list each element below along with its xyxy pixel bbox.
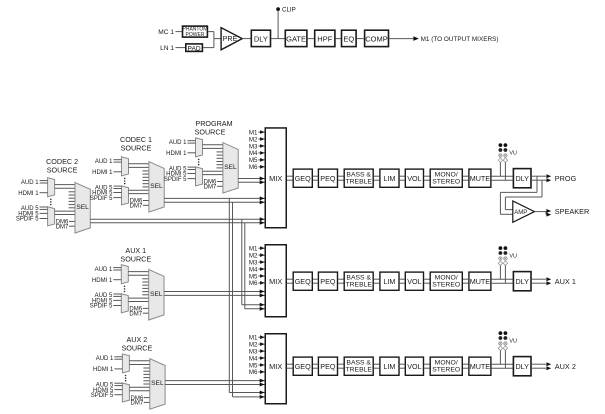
svg-text:AUD 1: AUD 1	[95, 267, 113, 273]
wire stub inputs codec 2-4 (AUX 1)	[142, 279, 148, 295]
wire pair LIM to VOL (PROG)	[400, 176, 405, 180]
svg-text:BASS &: BASS &	[346, 274, 371, 281]
wire pair CODEC 1 SEL to PROG mixer	[164, 196, 264, 204]
block PEQ (PROG)	[318, 169, 337, 187]
svg-text:LIM: LIM	[383, 362, 395, 371]
wire DM7 (AUX 2)	[144, 401, 150, 403]
wire pair BASS & TREBLE to LIM (AUX 2)	[374, 364, 379, 368]
wire AUD 1 pair (PROGRAM)	[188, 141, 196, 143]
wire mux B to SEL pair (AUX 1)	[128, 298, 148, 301]
svg-text:PROG: PROG	[555, 174, 577, 183]
svg-text:STEREO: STEREO	[432, 282, 460, 289]
svg-text:VU: VU	[509, 338, 517, 344]
wire EQ to COMP	[357, 38, 364, 40]
wire branch CODEC 2 pair down to AUX 1 mixer	[242, 219, 265, 311]
svg-text:MIX: MIX	[269, 277, 282, 286]
selector input mux B (AUX 1)	[121, 294, 128, 313]
label HDMI 1 (PROGRAM)	[166, 151, 187, 157]
label HDMI 1 (AUX 1)	[92, 278, 113, 284]
wire mux A to SEL pair (CODEC 1)	[129, 164, 149, 168]
wire pair LIM to VOL (AUX 2)	[400, 364, 405, 368]
wire mux A to SEL pair (CODEC 2)	[55, 185, 75, 189]
label DM6 (AUX 2)	[131, 396, 144, 402]
wire AUD 5 pair (CODEC 1)	[114, 186, 122, 188]
wire pair MONO/STEREO to MUTE (AUX 2)	[463, 364, 468, 368]
selector group CODEC 2	[16, 157, 90, 233]
wire HDMI 1 (CODEC 1)	[114, 171, 122, 173]
wire pair VOL to MONO/STEREO (AUX 2)	[424, 364, 429, 368]
wire DLY to GATE	[271, 38, 284, 40]
wire stub inputs codec 2-4 (CODEC 2)	[69, 192, 75, 208]
indicator VU meter	[498, 331, 517, 350]
block BASS & TREBLE (AUX 2)	[344, 357, 373, 375]
wire stub inputs codec 2-4 (CODEC 1)	[143, 171, 149, 187]
wire HDMI 1 (AUX 1)	[113, 279, 121, 281]
block PEQ (AUX 2)	[318, 357, 337, 375]
mixer MIX (AUX 1)	[265, 245, 286, 317]
wire pair CODEC 2 SEL to PROG mixer	[90, 217, 264, 225]
wire pair GEQ to PEQ (AUX 1)	[313, 279, 318, 283]
svg-text:PRE: PRE	[223, 34, 238, 43]
wire VU meter taps	[500, 163, 505, 181]
wire SPDIF 5 (AUX 2)	[114, 394, 122, 396]
wire pair MIX to GEQ (AUX 1)	[287, 279, 293, 283]
svg-text:PEQ: PEQ	[320, 174, 336, 183]
block PHANTOM POWER	[183, 26, 208, 38]
svg-text:MONO/: MONO/	[435, 274, 458, 281]
wire DM7 (AUX 1)	[143, 312, 149, 314]
svg-text:MONO/: MONO/	[435, 359, 458, 366]
label CODEC 2 SOURCE title	[46, 157, 78, 174]
svg-text:PAD: PAD	[188, 45, 201, 52]
wire phantom power and pad to preamp	[203, 32, 221, 48]
wire AUD 5 pair (PROGRAM)	[188, 167, 196, 169]
svg-text:AUD 1: AUD 1	[96, 356, 114, 362]
selector SEL (AUX 2)	[150, 359, 165, 410]
wire pair AUX 1 SEL to AUX 1 mixer	[164, 290, 265, 298]
selector input mux A (PROGRAM)	[196, 138, 203, 157]
mixer MIX (AUX 2)	[265, 334, 286, 404]
selector SEL (AUX 1)	[149, 270, 164, 321]
wire DM6 (AUX 2)	[144, 397, 150, 399]
svg-text:HDMI 1: HDMI 1	[92, 170, 113, 176]
svg-text:COMP: COMP	[365, 34, 388, 43]
block DLY (AUX 1)	[513, 272, 531, 291]
amplifier AMP	[513, 201, 535, 222]
wire SPDIF 5 (PROGRAM)	[188, 178, 196, 180]
wire CLIP to input wire	[277, 11, 279, 39]
svg-text:SPDIF 5: SPDIF 5	[16, 217, 39, 223]
label DM6 (CODEC 2)	[56, 220, 69, 226]
svg-text:DM7: DM7	[129, 311, 142, 317]
block VOL (PROG)	[405, 169, 423, 187]
svg-text:MUTE: MUTE	[470, 277, 491, 286]
wire COMP to M1 output	[389, 36, 419, 41]
label DM6 (CODEC 1)	[130, 199, 143, 205]
svg-text:GEQ: GEQ	[295, 362, 311, 371]
svg-text:M4: M4	[249, 266, 258, 273]
indicator VU meter	[498, 246, 517, 265]
wire HDMI 5 (AUX 1)	[113, 299, 121, 301]
svg-text:HDMI 1: HDMI 1	[93, 367, 114, 373]
svg-text:HDMI 1: HDMI 1	[92, 278, 113, 284]
label DM7 (PROGRAM)	[204, 185, 217, 191]
label AUD 5 (AUX 2)	[96, 382, 114, 388]
svg-text:M6: M6	[249, 164, 258, 171]
wire pair VOL to MONO/STEREO (AUX 1)	[424, 279, 429, 283]
block GEQ (AUX 1)	[293, 272, 312, 290]
mixer chain PROG	[249, 128, 577, 228]
svg-text:AUX 1: AUX 1	[555, 277, 576, 286]
block DLY (AUX 2)	[513, 357, 531, 376]
svg-text:AUD 1: AUD 1	[95, 159, 113, 165]
svg-text:DM7: DM7	[131, 401, 144, 407]
node M1 (TO OUTPUT MIXERS) label	[421, 36, 499, 43]
block GATE	[285, 30, 307, 46]
wire HDMI 5 (CODEC 2)	[40, 212, 48, 214]
block DLY (PROG)	[513, 169, 531, 188]
selector SEL (CODEC 2)	[75, 183, 90, 234]
wire stub inputs codec 2-4 (AUX 2)	[143, 368, 149, 384]
svg-text:EQ: EQ	[343, 34, 354, 43]
svg-text:MIX: MIX	[269, 362, 282, 371]
block VOL (AUX 1)	[405, 272, 423, 290]
wire branch PROG pair to amplifier	[500, 176, 542, 214]
label AUD 1 (AUX 2)	[96, 356, 114, 362]
wire pair MUTE to DLY (AUX 1)	[492, 279, 513, 283]
label HDMI 5 (CODEC 1)	[92, 191, 113, 197]
wire VU meter taps	[500, 266, 505, 284]
svg-text:SOURCE: SOURCE	[47, 165, 78, 174]
label SPDIF 5 (AUX 1)	[90, 304, 113, 310]
svg-text:M4: M4	[249, 150, 258, 157]
wire LN 1 to pad	[176, 47, 186, 49]
svg-text:HDMI 1: HDMI 1	[18, 191, 39, 197]
block PEQ (AUX 1)	[318, 272, 337, 290]
block MONO/STEREO (AUX 2)	[430, 357, 462, 375]
svg-text:MUTE: MUTE	[470, 362, 491, 371]
label HDMI 1 (CODEC 1)	[92, 170, 113, 176]
wire pair DLY to AUX 2 output (AUX 2)	[532, 362, 551, 370]
label SPDIF 5 (PROGRAM)	[164, 177, 187, 183]
svg-text:LN 1: LN 1	[160, 45, 174, 52]
label AUD 1 (PROGRAM)	[169, 140, 187, 146]
wire DM6 (AUX 1)	[143, 307, 149, 309]
wire SPDIF 5 (CODEC 1)	[114, 197, 122, 199]
label DM6 (PROGRAM)	[204, 180, 217, 186]
svg-text:M2: M2	[249, 136, 258, 143]
svg-text:SEL: SEL	[76, 204, 89, 211]
block PAD	[186, 44, 203, 52]
selector group PROGRAM	[164, 119, 238, 193]
svg-text:AUD 1: AUD 1	[169, 140, 187, 146]
label AUD 1 (AUX 1)	[95, 267, 113, 273]
wire preamp to DLY	[242, 38, 250, 40]
svg-text:BASS &: BASS &	[346, 171, 371, 178]
wire DM7 (CODEC 1)	[143, 204, 149, 206]
block HPF	[315, 30, 335, 46]
block MUTE (PROG)	[469, 169, 491, 187]
wire AUD 1 pair (AUX 1)	[113, 268, 121, 270]
ellipsis more inputs (PROGRAM)	[198, 159, 200, 166]
node AUX 2 output label	[555, 362, 576, 371]
svg-text:SPDIF 5: SPDIF 5	[91, 393, 114, 399]
wire MC 1 to phantom power	[176, 31, 182, 33]
wire HDMI 5 (PROGRAM)	[188, 173, 196, 175]
wire pair PEQ to BASS & TREBLE (AUX 1)	[338, 279, 343, 283]
label HDMI 5 (PROGRAM)	[166, 172, 187, 178]
wire pair DLY to PROG output (PROG)	[532, 174, 551, 182]
wire mux A to SEL pair (AUX 1)	[128, 272, 148, 276]
label SPDIF 5 (CODEC 1)	[90, 196, 113, 202]
label CODEC 1 SOURCE title	[120, 135, 152, 152]
wire pair MIX to GEQ (PROG)	[287, 176, 293, 180]
block GEQ (AUX 2)	[293, 357, 312, 375]
label HDMI 5 (AUX 1)	[92, 299, 113, 305]
mixer chain AUX 2	[249, 331, 576, 404]
wire pair MIX to GEQ (AUX 2)	[287, 364, 293, 368]
svg-text:MUTE: MUTE	[470, 174, 491, 183]
block LIM (PROG)	[380, 169, 399, 187]
wire stub inputs codec 2-4 (PROGRAM)	[217, 152, 223, 168]
label AUX 2 SOURCE title	[122, 335, 153, 352]
svg-text:SPDIF 5: SPDIF 5	[164, 177, 187, 183]
node AUX 1 output label	[555, 277, 576, 286]
block COMP	[365, 30, 389, 46]
label AUD 5 (AUX 1)	[95, 293, 113, 299]
wire mux A to SEL pair (PROGRAM)	[203, 145, 223, 149]
wire HPF to EQ	[336, 38, 341, 40]
svg-text:AUD 1: AUD 1	[21, 180, 39, 186]
wire pair GEQ to PEQ (AUX 2)	[313, 364, 318, 368]
svg-text:DM7: DM7	[56, 224, 69, 230]
svg-text:SOURCE: SOURCE	[120, 254, 151, 263]
svg-text:DLY: DLY	[254, 34, 268, 43]
selector input mux A (CODEC 1)	[122, 157, 129, 176]
svg-text:GEQ: GEQ	[295, 277, 311, 286]
label AUD 5 (CODEC 1)	[95, 185, 113, 191]
svg-text:SEL: SEL	[151, 380, 164, 387]
label PROGRAM SOURCE title	[195, 119, 233, 136]
label SPDIF 5 (CODEC 2)	[16, 217, 39, 223]
svg-text:SOURCE: SOURCE	[122, 344, 153, 353]
svg-text:STEREO: STEREO	[432, 179, 460, 186]
selector SEL (CODEC 1)	[149, 162, 164, 213]
svg-text:DLY: DLY	[515, 174, 529, 183]
wire AUD 1 pair (AUX 2)	[114, 357, 122, 359]
mixer chain AUX 1	[249, 245, 576, 317]
svg-text:VU: VU	[509, 150, 517, 156]
label AUD 5 (CODEC 2)	[21, 206, 39, 212]
svg-text:DLY: DLY	[515, 362, 529, 371]
wire SPDIF 5 (CODEC 2)	[40, 218, 48, 220]
svg-text:MONO/: MONO/	[435, 171, 458, 178]
svg-text:VOL: VOL	[407, 174, 421, 183]
block VOL (AUX 2)	[405, 357, 423, 375]
svg-text:SPDIF 5: SPDIF 5	[90, 304, 113, 310]
wire SPDIF 5 (AUX 1)	[113, 305, 121, 307]
label DM7 (AUX 2)	[131, 401, 144, 407]
block MUTE (AUX 2)	[469, 357, 491, 375]
label DM7 (CODEC 2)	[56, 224, 69, 230]
indicator VU meter	[498, 143, 517, 162]
node MC 1 input label	[158, 29, 174, 36]
ellipsis more inputs (AUX 2)	[125, 375, 127, 382]
wire AUD 1 pair (CODEC 2)	[40, 181, 48, 183]
wire mux A to SEL pair (AUX 2)	[129, 361, 149, 365]
wire pair DLY to AUX 1 output (AUX 1)	[532, 277, 551, 285]
wire mux B to SEL pair (CODEC 2)	[55, 211, 75, 214]
svg-text:DLY: DLY	[515, 277, 529, 286]
label HDMI 1 (AUX 2)	[93, 367, 114, 373]
selector input mux B (AUX 2)	[122, 383, 129, 402]
wire DM6 (CODEC 1)	[143, 200, 149, 202]
svg-text:TREBLE: TREBLE	[345, 282, 372, 289]
svg-text:DM7: DM7	[130, 204, 143, 210]
label AUD 1 (CODEC 1)	[95, 159, 113, 165]
svg-text:MC 1: MC 1	[158, 29, 174, 36]
svg-text:CLIP: CLIP	[282, 7, 296, 14]
block MONO/STEREO (PROG)	[430, 169, 462, 187]
svg-text:SOURCE: SOURCE	[195, 127, 226, 136]
wire pair MONO/STEREO to MUTE (AUX 1)	[463, 279, 468, 283]
wire AUD 5 pair (CODEC 2)	[40, 207, 48, 209]
wire pair LIM to VOL (AUX 1)	[400, 279, 405, 283]
ellipsis more inputs (CODEC 2)	[50, 199, 52, 206]
wire VU meter taps	[500, 351, 505, 369]
wire DM6 (CODEC 2)	[69, 220, 75, 222]
svg-text:LIM: LIM	[383, 174, 395, 183]
svg-text:M2: M2	[249, 341, 258, 348]
wire pair VOL to MONO/STEREO (PROG)	[424, 176, 429, 180]
wire pair BASS & TREBLE to LIM (PROG)	[374, 176, 379, 180]
wire pair MUTE to DLY (AUX 2)	[492, 364, 513, 368]
label AUX 1 SOURCE title	[120, 246, 151, 263]
svg-text:PEQ: PEQ	[320, 277, 336, 286]
wire mux B to SEL pair (CODEC 1)	[129, 190, 149, 193]
svg-text:STEREO: STEREO	[432, 367, 460, 374]
svg-text:AMP: AMP	[514, 210, 527, 216]
label DM6 (AUX 1)	[129, 307, 142, 313]
svg-text:MIX: MIX	[269, 174, 282, 183]
wire branch CODEC 1 pair down to AUX 2 mixer	[229, 198, 264, 399]
wire AUD 5 pair (AUX 1)	[113, 294, 121, 296]
block LIM (AUX 1)	[380, 272, 399, 290]
selector SEL (PROGRAM)	[223, 143, 238, 194]
wire pair PEQ to BASS & TREBLE (AUX 2)	[338, 364, 343, 368]
svg-text:HDMI 1: HDMI 1	[166, 151, 187, 157]
selector input mux A (AUX 1)	[121, 265, 128, 284]
wire mux B to SEL pair (AUX 2)	[129, 387, 149, 390]
wire HDMI 1 (CODEC 2)	[40, 192, 48, 194]
wire DM6 (PROGRAM)	[217, 181, 223, 183]
wire pair MUTE to DLY (PROG)	[492, 176, 513, 180]
selector input mux A (CODEC 2)	[48, 178, 55, 197]
label DM7 (AUX 1)	[129, 311, 142, 317]
block GEQ (PROG)	[293, 169, 312, 187]
label DM7 (CODEC 1)	[130, 204, 143, 210]
wire pair AUX 2 SEL to AUX 2 mixer	[165, 379, 264, 387]
block BASS & TREBLE (PROG)	[344, 169, 373, 187]
block MUTE (AUX 1)	[469, 272, 491, 290]
svg-text:LIM: LIM	[383, 277, 395, 286]
node M1-M6 mic inputs (PROG)	[249, 129, 265, 171]
selector input mux B (PROGRAM)	[196, 167, 203, 186]
svg-text:PEQ: PEQ	[320, 362, 336, 371]
svg-text:SPDIF 5: SPDIF 5	[90, 196, 113, 202]
wire pair PROGRAM SEL to PROG mixer	[238, 177, 264, 185]
block EQ	[342, 30, 357, 46]
svg-text:M6: M6	[249, 369, 258, 376]
svg-text:VOL: VOL	[407, 277, 421, 286]
wire pair GEQ to PEQ (PROG)	[313, 176, 318, 180]
svg-text:SPEAKER: SPEAKER	[555, 207, 589, 216]
node CLIP indicator	[276, 7, 296, 14]
block BASS & TREBLE (AUX 1)	[344, 272, 373, 290]
svg-text:POWER: POWER	[186, 32, 205, 38]
svg-text:SEL: SEL	[224, 164, 237, 171]
svg-text:TREBLE: TREBLE	[345, 367, 372, 374]
wire DM7 (PROGRAM)	[217, 185, 223, 187]
svg-text:VU: VU	[509, 253, 517, 259]
wire HDMI 1 (AUX 2)	[114, 368, 122, 370]
svg-text:TREBLE: TREBLE	[345, 179, 372, 186]
svg-text:SEL: SEL	[150, 183, 163, 190]
wire DM7 (CODEC 2)	[69, 225, 75, 227]
node M1-M6 mic inputs (AUX 2)	[249, 335, 265, 377]
node M1-M6 mic inputs (AUX 1)	[249, 246, 265, 288]
wire HDMI 5 (AUX 2)	[114, 389, 122, 391]
wire AUD 1 pair (CODEC 1)	[114, 160, 122, 162]
svg-text:M4: M4	[249, 355, 258, 362]
svg-text:SOURCE: SOURCE	[121, 143, 152, 152]
label SPDIF 5 (AUX 2)	[91, 393, 114, 399]
svg-text:BASS &: BASS &	[346, 359, 371, 366]
label HDMI 5 (CODEC 2)	[18, 212, 39, 218]
wire AUD 5 pair (AUX 2)	[114, 383, 122, 385]
node SPEAKER output label	[555, 207, 589, 216]
wire AMP to SPEAKER output	[535, 209, 552, 217]
wire pair MONO/STEREO to MUTE (PROG)	[463, 176, 468, 180]
selector group AUX 1	[90, 246, 164, 320]
svg-text:HPF: HPF	[317, 34, 332, 43]
wire HDMI 1 (PROGRAM)	[188, 152, 196, 154]
block LIM (AUX 2)	[380, 357, 399, 375]
svg-text:VOL: VOL	[407, 362, 421, 371]
node PROG output label	[555, 174, 577, 183]
wire HDMI 5 (CODEC 1)	[114, 192, 122, 194]
selector group CODEC 1	[90, 135, 164, 212]
svg-text:GATE: GATE	[286, 34, 306, 43]
amplifier PRE	[221, 28, 242, 50]
selector input mux B (CODEC 1)	[122, 186, 129, 205]
block DLY (input delay)	[251, 30, 270, 46]
svg-text:M6: M6	[249, 280, 258, 287]
ellipsis more inputs (AUX 1)	[124, 286, 126, 293]
selector input mux A (AUX 2)	[122, 354, 129, 373]
svg-text:M1 (TO OUTPUT MIXERS): M1 (TO OUTPUT MIXERS)	[421, 36, 499, 43]
selector group AUX 2	[91, 335, 165, 409]
svg-text:GEQ: GEQ	[295, 174, 311, 183]
block MONO/STEREO (AUX 1)	[430, 272, 462, 290]
wire pair PEQ to BASS & TREBLE (PROG)	[338, 176, 343, 180]
node LN 1 input label	[160, 45, 174, 52]
label AUD 1 (CODEC 2)	[21, 180, 39, 186]
label HDMI 5 (AUX 2)	[93, 388, 114, 394]
ellipsis more inputs (CODEC 1)	[124, 178, 126, 185]
wire GATE to HPF	[308, 38, 314, 40]
wire pair BASS & TREBLE to LIM (AUX 1)	[374, 279, 379, 283]
